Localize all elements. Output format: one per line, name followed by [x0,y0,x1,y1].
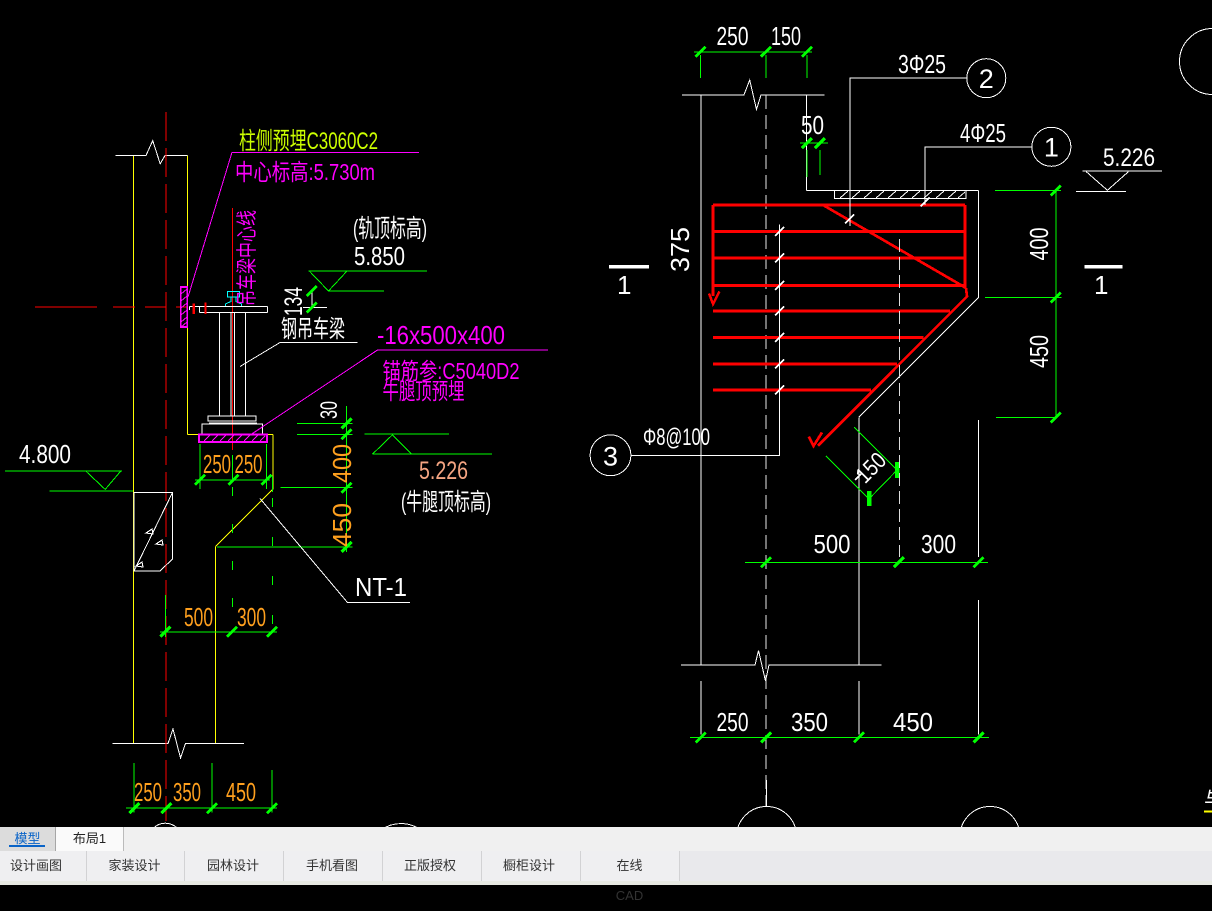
column left face [133,156,135,744]
svg-text:5.850: 5.850 [354,241,405,271]
corbel top edge [187,433,273,435]
elevation symbol 5.226 right (white) [1076,171,1162,191]
green extension corbel tip [272,476,274,492]
UI button bar [0,851,1212,881]
svg-text:350: 350 [173,777,201,807]
bubble 1 [1032,127,1071,166]
elevation symbol 5.850 (green) [309,271,428,291]
leader underline for -16x500x400 (magenta) [252,350,548,434]
corbel slant [216,489,274,547]
dimension 150 on slant (green) [826,427,897,506]
bent bar along slant with arrow [818,288,967,446]
dimension 250/350/450 bottom (green line, white text) [690,707,989,742]
svg-text:-16x500x400: -16x500x400 [377,320,505,350]
svg-text:1: 1 [1044,133,1059,163]
corbel top edge [807,189,979,191]
green extension below beam centerline [232,455,234,481]
upper column right face [806,95,808,191]
svg-text:250: 250 [717,707,749,737]
leader 3phi25 [845,49,967,226]
rebar cage: left vertical with arrow [712,205,715,296]
svg-text:与与: 与与 [1204,788,1212,811]
svg-text:3: 3 [603,442,618,472]
dimension chain 30/400/450 (green line, orange text) [217,401,357,552]
crane beam centerline (red) [232,208,234,450]
stirrups (red) [713,230,965,233]
dimension 250/250 (green line, orange text) [195,444,272,489]
axis bubble right-1 [737,807,797,867]
svg-text:30: 30 [316,401,343,419]
svg-text:5.226: 5.226 [419,457,468,485]
svg-text:(牛腿顶标高): (牛腿顶标高) [401,489,491,516]
concrete section symbol [134,493,173,572]
svg-text:450: 450 [893,707,933,737]
column side embed plate (magenta hatched) [181,287,188,327]
svg-text:中心标高:5.730m: 中心标高:5.730m [235,159,375,185]
svg-text:250: 250 [134,777,162,807]
stirrup cross ticks (white) [775,227,784,395]
svg-text:350: 350 [791,707,828,737]
partial text right edge [1204,788,1212,811]
column top break line [682,80,825,110]
beam level centerline (red dashed horizontal) [35,306,188,308]
svg-text:1: 1 [1094,270,1108,300]
column centerline (white dashed) [765,95,767,806]
corbel right face [978,190,980,297]
centerline to axis bubble [766,780,768,807]
svg-text:250: 250 [203,449,231,479]
svg-text:150: 150 [771,21,801,51]
dimension 500/300 (green line, white text) [745,529,988,567]
svg-text:500: 500 [814,529,851,559]
svg-text:2: 2 [979,64,994,94]
big circle top-right corner [1180,29,1212,95]
svg-text:NT-1: NT-1 [355,572,407,602]
axis bubble left (partial arc) [149,823,183,857]
rebar cage: right vertical [964,205,967,288]
svg-text:250: 250 [235,449,263,479]
svg-text:1: 1 [617,270,631,300]
svg-text:134: 134 [280,287,308,316]
extension line dashed at 899.6 [899,239,901,557]
column centerline (red dashed) [165,112,167,821]
svg-text:400: 400 [327,444,357,483]
svg-text:钢吊车梁: 钢吊车梁 [281,316,345,343]
svg-text:5.226: 5.226 [1103,144,1155,172]
svg-text:Φ8@100: Φ8@100 [643,424,710,451]
leader 4phi25 [921,118,1032,207]
section mark 1-1 right [1085,265,1123,268]
extension line corbel tip [978,420,980,557]
svg-text:450: 450 [1024,335,1054,368]
dimension 50 (green) [800,110,828,177]
svg-text:450: 450 [327,503,357,547]
upper column right face [186,156,188,435]
svg-text:50: 50 [801,110,824,140]
axis bubble mid (partial arc) [368,824,435,891]
axis bubble right-2 [960,807,1020,867]
corbel top embed plate (magenta hatched) [199,434,267,441]
leader underline for C3060C2 (magenta) [188,152,419,297]
column left face / 375 dim line [700,95,702,665]
svg-text:400: 400 [1024,228,1054,261]
column bottom break line [113,729,245,758]
svg-text:250: 250 [717,21,749,51]
corbel top embed plate (white hatched) [835,190,967,198]
dimension 250/150 top (green) [694,21,812,78]
bottom extension lines [701,600,979,735]
crane beam top flange [190,307,268,313]
dimension 400/450 right (green) [985,186,1061,423]
elevation symbol 4.800 (green) [5,471,133,491]
corbel slant [859,297,979,417]
svg-text:3Φ25: 3Φ25 [898,49,946,79]
elevation symbol 5.226 left (green, apex-up) [365,434,492,454]
LEFT-VIEW [5,112,548,890]
svg-text:375: 375 [665,227,695,272]
crane rail (cyan) [225,292,241,307]
svg-text:4Φ25: 4Φ25 [960,118,1006,148]
section mark 1-1 left [609,265,649,268]
crane beam web [220,312,246,416]
svg-text:吊车梁中心线: 吊车梁中心线 [236,210,259,306]
beam end bolts (red) [194,303,206,315]
rebar cage: top bar [713,204,965,207]
leader phi8@100 with bubble 3 [631,225,780,456]
column bottom break line [681,651,882,682]
column top break line [116,141,188,164]
corbel right face [272,434,274,489]
dimension 134 (white line, green ticks) [280,286,327,316]
crane beam bottom flange [202,416,262,434]
lower column right face [215,547,217,744]
RIGHT-VIEW [590,21,1212,867]
dimension 500/300 (green line, orange text) [160,595,277,637]
svg-text:(轨顶标高): (轨顶标高) [353,215,427,243]
svg-text:柱侧预埋C3060C2: 柱侧预埋C3060C2 [239,128,378,155]
svg-text:500: 500 [184,602,213,632]
svg-text:4.800: 4.800 [19,439,71,469]
bubble 2 [967,59,1006,98]
svg-text:450: 450 [226,777,256,807]
svg-text:牛腿顶预埋: 牛腿顶预埋 [383,378,465,404]
svg-text:300: 300 [237,602,266,632]
bent bar diagonal [823,205,966,288]
dimension 250/350/450 bottom (green line, orange text) [126,763,277,813]
lower column right face [858,417,860,665]
svg-text:300: 300 [921,529,956,559]
UI tab bar [0,827,1212,851]
